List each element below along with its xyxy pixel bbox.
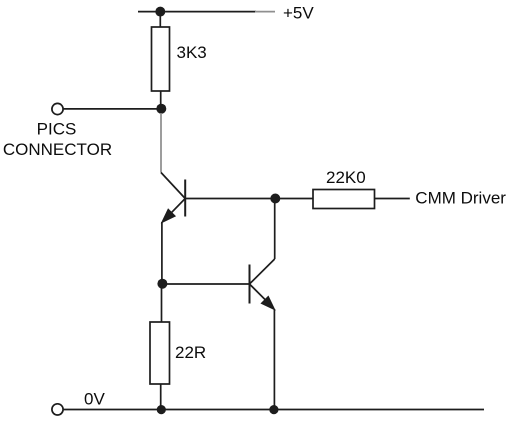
transistor Q1 emitter arrow <box>162 209 175 222</box>
node A junction dot (+5V / R1) <box>155 7 165 17</box>
wire node B to Q1 collector (grey faded) <box>160 113 162 173</box>
svg-text:+5V: +5V <box>283 4 314 23</box>
wire node A to R1 top <box>159 12 161 27</box>
svg-text:0V: 0V <box>84 389 105 408</box>
wire Q2 emitter to 0V rail <box>273 309 275 410</box>
wire +5V rail grey stub <box>255 11 275 13</box>
wire R3 to CMM Driver <box>375 198 410 200</box>
node E junction dot (R2 / 0V) <box>157 405 166 414</box>
resistor R2 22R body <box>150 322 170 384</box>
svg-text:22R: 22R <box>175 343 206 362</box>
svg-text:PICS: PICS <box>37 120 77 139</box>
wire node D to R3 <box>275 198 313 200</box>
transistor Q2 emitter diagonal <box>250 284 274 308</box>
wire +5V rail <box>138 11 256 13</box>
svg-text:22K0: 22K0 <box>326 168 366 187</box>
transistor Q1 emitter diagonal <box>163 199 185 222</box>
node B junction dot <box>156 104 166 114</box>
svg-text:CONNECTOR: CONNECTOR <box>3 140 112 159</box>
wire R2 bottom to 0V rail <box>160 384 162 410</box>
wire node C to R2 top <box>161 284 163 322</box>
wire R1 bottom to node B <box>160 91 162 109</box>
node C junction dot <box>157 279 167 289</box>
wire PICS terminal to node B <box>63 108 161 110</box>
resistor R1 3K3 body <box>152 27 170 91</box>
wire node C to Q2 base <box>162 283 249 285</box>
transistor Q2 emitter arrow <box>261 296 274 309</box>
terminal PICS CONNECTOR open circle <box>52 103 63 114</box>
transistor Q2 collector diagonal <box>250 259 275 284</box>
resistor R3 22K0 body <box>313 190 375 209</box>
wire Q1 base to node D <box>185 198 275 200</box>
terminal 0V open circle <box>52 404 63 415</box>
transistor Q1 collector diagonal <box>161 173 185 199</box>
wire Q2 collector to node D <box>274 199 276 260</box>
svg-text:CMM Driver: CMM Driver <box>415 189 506 208</box>
svg-text:3K3: 3K3 <box>177 43 207 62</box>
node F junction dot (Q2 emitter / 0V) <box>269 405 278 414</box>
wire 0V rail <box>63 409 484 411</box>
transistor Q1 base bar <box>184 180 186 217</box>
transistor Q2 base bar <box>249 265 251 304</box>
node D junction dot <box>270 194 280 204</box>
wire Q1 emitter to node C <box>161 222 163 284</box>
